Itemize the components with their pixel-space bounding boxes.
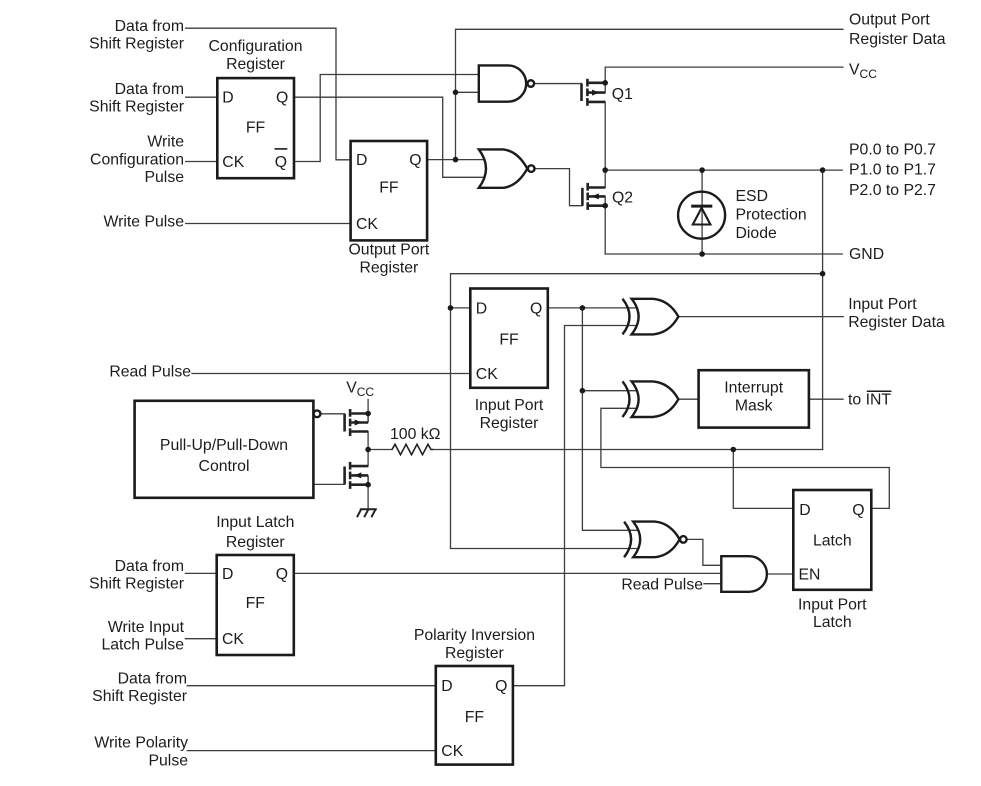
svg-text:Q: Q [275,154,287,171]
pull-up gate wire from control box bubble [320,413,344,415]
svg-text:Read Pulse: Read Pulse [109,364,191,381]
svg-text:Q: Q [852,502,864,519]
ground [357,509,377,517]
svg-text:Polarity Inversion: Polarity Inversion [414,627,535,644]
junction node output FF Q [453,157,459,163]
svg-text:Register: Register [359,259,418,276]
wire VCC stub to pull-up [367,400,369,414]
svg-text:Read Pulse: Read Pulse [621,577,703,594]
configuration register FF box [217,78,294,178]
NAND bubble [528,80,535,87]
svg-text:FF: FF [465,709,485,726]
pull-down NMOS [345,462,369,489]
junction node latch D tap [731,447,737,453]
junction node Q1 drain [602,80,608,86]
junction node pull-down source [365,482,371,488]
svg-text:FF: FF [246,119,266,136]
junction node port-Q1 [602,167,608,173]
svg-text:D: D [799,502,810,519]
junction node NAND input [453,90,459,96]
polarity inversion register FF box [436,666,513,765]
svg-text:Register Data: Register Data [849,31,946,48]
svg-text:Shift Register: Shift Register [89,99,184,116]
svg-text:Write: Write [147,134,184,151]
junction node input FF Q [580,305,586,311]
junction node pull-up VCC [365,411,371,417]
svg-text:100 kΩ: 100 kΩ [390,426,441,443]
svg-text:Q1: Q1 [612,86,633,103]
wire Q2 source/body down to GND rail [604,196,606,254]
svg-text:Protection: Protection [736,206,807,223]
svg-text:Q: Q [276,566,288,583]
svg-text:Input Port: Input Port [798,596,867,613]
svg-text:Write Polarity: Write Polarity [94,735,188,752]
wire write-configuration-pulse to CK [186,161,218,163]
junction node feedback right [820,271,826,277]
XOR gate 1 input arc [623,299,630,335]
svg-text:D: D [476,300,487,317]
wire XOR1 output to label [678,316,843,318]
wire read pulse stub to AND lower input [704,583,721,585]
wire output FF Q to NOR upper input [427,159,485,161]
svg-text:Interrupt: Interrupt [724,380,783,397]
transistor Q2 [582,183,605,210]
svg-text:Control: Control [199,458,250,475]
junction node Q2 source [602,203,608,209]
wire XNOR output to AND upper input [687,539,722,565]
wire write input latch pulse to CK [185,638,216,640]
pull-up PMOS [345,409,369,436]
XNOR gate body [633,522,679,558]
svg-text:Configuration: Configuration [90,151,184,168]
svg-text:D: D [441,678,452,695]
wire latch Q feedback to XOR2 lower input [601,408,889,508]
svg-text:Shift Register: Shift Register [92,688,187,705]
input latch register FF box [217,555,294,655]
pull-up/pull-down control box [135,401,314,498]
svg-text:Configuration: Configuration [209,38,303,55]
svg-text:Register: Register [226,56,285,73]
junction node input FF D [448,305,454,311]
wire data-from-shift-register 2 to D of config [186,96,218,98]
wire port line to P labels [605,169,842,171]
svg-text:Diode: Diode [736,225,777,242]
svg-text:Data from: Data from [115,18,184,35]
junction node port-right [820,167,826,173]
svg-text:Write Input: Write Input [108,619,185,636]
wire port feedback vertical right [822,170,824,449]
svg-text:Data from: Data from [118,670,187,687]
svg-text:P2.0 to P2.7: P2.0 to P2.7 [849,182,936,199]
wire data-from-shift-register top to corner [186,28,351,160]
junction node port-diode [699,167,705,173]
svg-text:Register Data: Register Data [848,314,945,331]
wire polarity Q riser to XOR1 lower input [513,326,637,686]
svg-text:Register: Register [226,534,285,551]
svg-text:D: D [222,90,233,107]
svg-text:EN: EN [799,566,821,583]
svg-text:D: D [222,566,233,583]
svg-text:Input Latch: Input Latch [216,514,294,531]
interrupt mask box [699,370,809,427]
output port register FF box [351,141,428,240]
junction node pull mid [365,447,371,453]
svg-text:to INT: to INT [848,391,891,408]
wire NAND lower input from node [456,91,481,93]
svg-text:GND: GND [849,246,884,263]
wire NOR output to Q2 gate [534,169,582,206]
svg-text:Q: Q [276,90,288,107]
svg-text:Pull-Up/Pull-Down: Pull-Up/Pull-Down [160,437,288,454]
svg-text:CK: CK [222,631,244,648]
wire Q2 drain up to port node [604,170,606,187]
wire write pulse to output FF CK [186,223,351,225]
svg-text:Q: Q [530,300,542,317]
wire AND output to latch EN [767,573,793,575]
NOR gate U2 [479,149,528,187]
wire ESD diode vertical [701,170,703,254]
pull-down gate wire from control box [313,483,344,485]
svg-text:Data from: Data from [115,558,184,575]
svg-text:Input Port: Input Port [475,397,544,414]
XNOR bubble [680,536,687,543]
XNOR gate input arc [624,522,631,558]
svg-text:Pulse: Pulse [144,169,184,186]
wire data-from 3 to input latch D [185,572,216,574]
pull-up control bubble [314,410,321,417]
wire resistor to port feedback [433,449,822,451]
wire input FF Q to XOR1 [548,307,637,309]
svg-text:P1.0 to P1.7: P1.0 to P1.7 [849,162,936,179]
wire output-port-register-data top [456,29,843,159]
wire pull node to resistor [368,449,392,451]
NOR bubble [528,165,535,172]
input port latch box [793,490,871,590]
XOR gate 1 body [632,299,679,335]
svg-text:Data from: Data from [115,81,184,98]
svg-text:FF: FF [379,179,399,196]
wire Q1 source down to port node [604,102,606,170]
wire XOR2 upper input [582,390,636,392]
wire pull-up to pull-down node [367,432,369,467]
wire data-from 4 to polarity D [187,685,435,687]
svg-text:Q: Q [409,152,421,169]
wire config Qbar to NAND upper input [294,75,480,162]
svg-text:Q: Q [495,678,507,695]
junction node XOR2 input [580,388,586,394]
wire XOR2 output to interrupt mask [678,398,698,400]
ESD protection diode [678,192,725,239]
svg-text:FF: FF [499,331,519,348]
svg-text:Latch: Latch [813,614,852,631]
svg-text:Register: Register [480,415,539,432]
wire pull-down to ground [367,485,369,510]
svg-text:Latch Pulse: Latch Pulse [101,637,184,654]
svg-text:Latch: Latch [813,532,852,549]
svg-text:CK: CK [356,216,378,233]
wire interrupt mask output to INT label [809,398,843,400]
wire Q vertical to XOR2 and XNOR [582,308,638,530]
svg-text:Output Port: Output Port [349,241,430,258]
wire input latch Q to AND middle input [294,572,722,574]
wire feedback horizontal to input side [451,274,823,549]
svg-text:CK: CK [476,366,498,383]
svg-text:Shift Register: Shift Register [89,575,184,592]
AND gate read pulse [721,556,767,592]
XOR gate 2 body [632,381,679,417]
XOR gate 2 input arc [623,381,630,417]
wire input FF D [451,307,471,309]
INT overline [867,390,892,392]
NAND gate U1 [479,65,526,101]
config Qbar overline [275,148,288,150]
svg-text:Write Pulse: Write Pulse [104,213,185,230]
wire Q1 drain to VCC rail [605,67,843,93]
svg-text:P0.0 to P0.7: P0.0 to P0.7 [849,141,936,158]
svg-text:FF: FF [246,595,266,612]
svg-text:CK: CK [441,743,463,760]
junction node diode-GND [699,251,705,257]
svg-text:Input Port: Input Port [848,296,917,313]
svg-text:Output Port: Output Port [849,11,930,28]
wire read pulse to input FF CK [192,373,470,375]
svg-text:Register: Register [445,645,504,662]
wire GND rail [605,253,842,255]
svg-text:Shift Register: Shift Register [89,36,184,53]
svg-text:Pulse: Pulse [148,752,188,769]
input port register FF box [470,289,548,388]
svg-text:Q2: Q2 [612,189,633,206]
wire write polarity pulse to CK [187,750,435,752]
svg-text:CK: CK [222,154,244,171]
svg-text:ESD: ESD [736,188,768,205]
wire config Q to NOR lower input [294,97,485,177]
wire latch D tap [733,450,793,509]
transistor Q1 [582,79,606,106]
svg-text:D: D [356,152,367,169]
wire NAND output to Q1 gate [535,83,582,85]
svg-text:Mask: Mask [735,398,773,415]
resistor 100k [392,444,433,454]
